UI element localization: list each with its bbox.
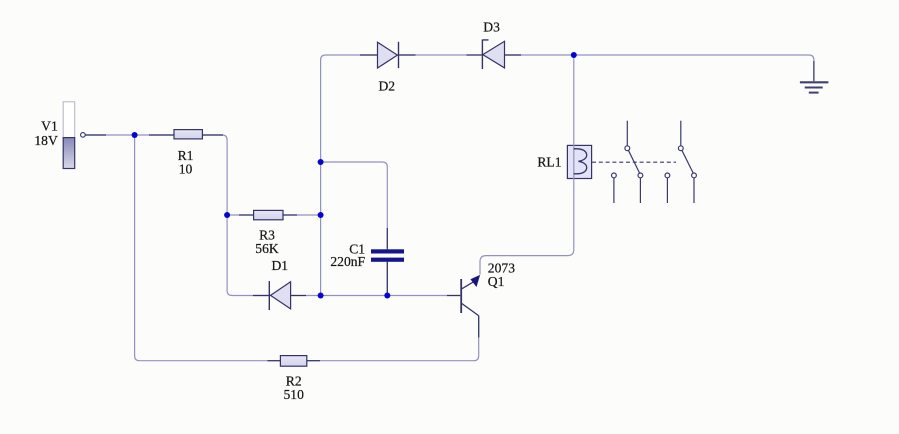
junction node R3 left — [224, 212, 230, 218]
transistor Q1 — [460, 275, 480, 316]
pin R3 right — [283, 214, 297, 216]
junction node R3 right — [318, 212, 324, 218]
resistor R2 — [280, 356, 306, 367]
diode D1 — [269, 281, 290, 310]
label D1 — [271, 258, 288, 273]
svg-text:Q1: Q1 — [488, 274, 505, 289]
switch SW-A contacts — [612, 173, 643, 203]
junction node C1 bottom — [384, 293, 390, 299]
diode D3 — [482, 40, 504, 70]
label RL1 — [537, 154, 561, 169]
label D3 — [483, 19, 500, 34]
junction node C1 top branch — [318, 159, 324, 165]
terminal node — [81, 133, 86, 138]
wire left vertical and bottom rail — [135, 138, 479, 361]
svg-text:V1: V1 — [41, 119, 58, 134]
pin D1 left — [253, 295, 269, 297]
pin R2 left — [268, 360, 281, 362]
resistor R3 — [254, 210, 283, 219]
pin D2 left — [360, 54, 377, 56]
junction node D1 right — [318, 293, 324, 299]
pin D3 left — [467, 54, 483, 56]
svg-text:D3: D3 — [483, 19, 500, 34]
wire C1 branch bottom — [386, 262, 388, 293]
battery V1 — [63, 102, 74, 169]
pin Q1 base — [447, 295, 460, 297]
label D2 — [378, 79, 395, 94]
pin C1 bottom — [386, 262, 388, 293]
switch SW-A common — [625, 121, 640, 173]
relay coil winding — [574, 149, 587, 174]
pin D2 right — [398, 54, 415, 56]
wire through R1 down to D1 row and to Q1 base — [137, 135, 460, 296]
diode D2 — [378, 42, 399, 68]
junction node top rail — [571, 52, 577, 58]
pin R2 right — [307, 360, 320, 362]
label 2073 Q1 — [488, 261, 515, 290]
wire R3 row — [230, 214, 318, 216]
pin R3 left — [239, 214, 254, 216]
switch SW-B contacts — [665, 173, 696, 203]
junction node at V1 — [132, 132, 138, 138]
pin C1 top — [386, 228, 388, 249]
svg-text:510: 510 — [284, 387, 305, 402]
pin D1 right — [291, 295, 306, 297]
svg-text:10: 10 — [179, 161, 193, 176]
label R1 10 — [178, 148, 194, 176]
svg-text:18V: 18V — [34, 133, 58, 148]
pin R1 right — [202, 134, 223, 136]
svg-text:D2: D2 — [378, 79, 395, 94]
relay contact link (dashed) — [592, 161, 676, 163]
label V1 18V — [34, 119, 58, 149]
pin R1 left — [149, 134, 174, 136]
wire relay coil branch to Q1 collector — [480, 58, 574, 275]
relay RL1 — [567, 145, 591, 178]
resistor R1 — [174, 130, 202, 139]
wire C1 branch top — [323, 162, 387, 248]
wire terminal to junction and down-left loop — [85, 134, 133, 136]
pin Q1 emitter — [478, 316, 480, 338]
capacitor C1 — [371, 249, 404, 262]
switch SW-B common — [678, 121, 693, 173]
svg-text:220nF: 220nF — [330, 254, 365, 269]
svg-text:56K: 56K — [255, 241, 279, 256]
pin V1 — [85, 134, 106, 136]
svg-text:D1: D1 — [271, 258, 288, 273]
label C1 220nF — [330, 241, 365, 268]
label R3 56K — [255, 228, 279, 256]
pin D3 right — [505, 54, 522, 56]
svg-text:RL1: RL1 — [537, 154, 561, 169]
ground — [800, 61, 829, 93]
wire main vertical to top rail and to ground — [321, 55, 814, 293]
label R2 510 — [284, 374, 305, 402]
